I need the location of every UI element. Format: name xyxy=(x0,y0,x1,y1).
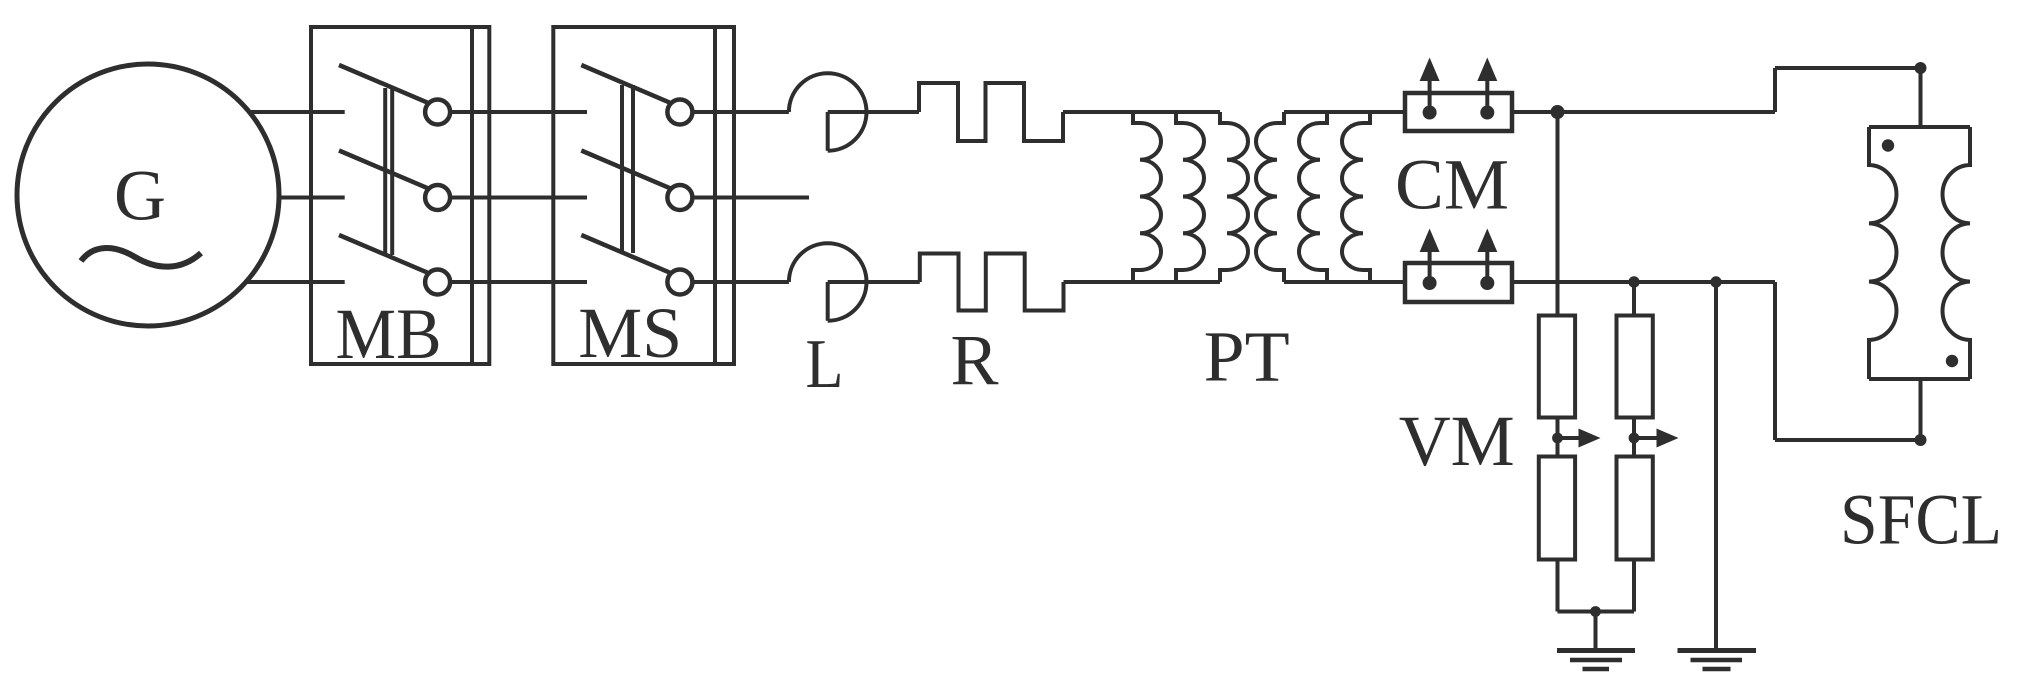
MB pole 1 blade xyxy=(339,65,429,103)
CM top arrow 1 xyxy=(1420,58,1440,113)
wire R to PT bottom xyxy=(1064,280,1221,284)
wire VM bottom bus xyxy=(1558,610,1635,614)
ground 1 xyxy=(1557,651,1635,670)
generator G circle xyxy=(17,64,279,326)
MB pole 2 contact xyxy=(425,185,450,210)
switch MS inner line xyxy=(713,27,717,364)
node junction ground2 xyxy=(1710,276,1721,287)
MB pole 3 contact xyxy=(425,270,450,295)
CM top dot 1 xyxy=(1423,106,1437,120)
MB pole 1 stub xyxy=(311,110,345,114)
CM bottom dot 1 xyxy=(1423,276,1437,290)
wire MS to L bottom xyxy=(692,280,789,284)
wire top corner riser xyxy=(1773,68,1777,112)
SFCL box top edge xyxy=(1869,125,1970,129)
MB pole 2 blade xyxy=(339,151,429,189)
generator sine wave xyxy=(81,248,201,267)
svg-text:MS: MS xyxy=(578,293,682,373)
breaker MB box xyxy=(311,27,489,364)
wire PT to CM bottom xyxy=(1284,280,1405,284)
VM tap arrow 2 xyxy=(1634,429,1679,448)
MS pole 1 blade xyxy=(581,65,671,103)
current monitor CM top box xyxy=(1405,93,1512,131)
wire SFCL bottom feed xyxy=(1919,379,1923,440)
inductor L bottom xyxy=(789,243,920,321)
svg-text:MB: MB xyxy=(336,294,442,374)
VM tap dot 1 xyxy=(1552,433,1563,444)
wire generator to MB top xyxy=(249,110,311,114)
switch MS box xyxy=(553,27,734,364)
wire MS to L top xyxy=(692,110,789,114)
MS pole 2 contact xyxy=(667,185,692,210)
VM resistor 1b xyxy=(1539,457,1575,560)
SFCL terminal dot top xyxy=(1882,139,1894,151)
MB pole 1 contact xyxy=(425,100,450,125)
wire SFCL top feed xyxy=(1919,68,1923,127)
ground 2 xyxy=(1678,651,1757,670)
SFCL right coil side xyxy=(1943,127,1970,379)
MS pole 3 contact xyxy=(667,270,692,295)
wire CM to corner top xyxy=(1512,110,1775,114)
wire VM chain1 bottom xyxy=(1556,560,1560,612)
MB linkage xyxy=(385,88,392,255)
MS pole 1 contact xyxy=(667,100,692,125)
MB pole 2 stub xyxy=(311,196,345,200)
node junction top xyxy=(1551,105,1565,119)
wire top to SFCL xyxy=(1775,66,1921,70)
wire PT to CM top xyxy=(1284,110,1405,114)
wire VM ground stem xyxy=(1594,612,1598,650)
current monitor CM bottom box xyxy=(1405,263,1512,302)
node junction VM2 xyxy=(1628,276,1639,287)
wire MB to MS bottom xyxy=(450,280,587,284)
VM tap dot 2 xyxy=(1629,433,1640,444)
SFCL box bottom edge xyxy=(1869,377,1970,381)
VM resistor 1a xyxy=(1539,316,1575,418)
wire VM chain1 drop xyxy=(1556,112,1560,316)
inductor L top xyxy=(789,73,919,151)
VM tap arrow 1 xyxy=(1558,429,1601,448)
node SFCL bottom xyxy=(1915,434,1927,446)
svg-text:VM: VM xyxy=(1399,401,1515,481)
wire bottom corner riser xyxy=(1773,282,1777,440)
wire VM chain2 mid xyxy=(1632,418,1636,457)
resistor R top xyxy=(919,83,1063,141)
SFCL left coil side xyxy=(1869,127,1896,379)
wire generator to MB bottom xyxy=(246,280,311,284)
transformer PT secondary winding xyxy=(1256,112,1370,282)
CM bottom dot 2 xyxy=(1480,276,1494,290)
wire R to PT top xyxy=(1063,110,1220,114)
wire VM chain2 drop xyxy=(1632,282,1636,316)
wire generator to MB middle xyxy=(279,196,311,200)
transformer PT primary winding xyxy=(1133,112,1248,282)
MS pole 2 blade xyxy=(581,151,671,189)
svg-text:G: G xyxy=(114,156,166,236)
node SFCL top xyxy=(1915,62,1927,74)
svg-text:CM: CM xyxy=(1395,145,1509,225)
resistor R bottom xyxy=(920,254,1064,311)
node VM ground junction xyxy=(1590,606,1601,617)
wire CM to corner bottom xyxy=(1512,280,1775,284)
breaker MB inner line xyxy=(470,27,474,364)
svg-text:SFCL: SFCL xyxy=(1840,479,2002,559)
VM resistor 2b xyxy=(1617,457,1653,560)
wire SFCL bottom return xyxy=(1775,438,1921,442)
VM resistor 2a xyxy=(1617,316,1653,418)
MS pole 3 blade xyxy=(581,235,671,273)
wire middle phase stub xyxy=(692,196,809,200)
wire VM chain2 bottom xyxy=(1632,560,1636,612)
wire ground 2 stem xyxy=(1714,282,1718,649)
svg-text:L: L xyxy=(806,326,844,403)
wire MB to MS middle xyxy=(450,196,587,200)
MS linkage xyxy=(622,85,633,253)
CM top dot 2 xyxy=(1480,106,1494,120)
CM bottom arrow 2 xyxy=(1477,229,1497,284)
MB pole 3 blade xyxy=(339,235,429,273)
wire VM chain1 mid xyxy=(1556,418,1560,457)
CM top arrow 2 xyxy=(1477,58,1497,113)
CM bottom arrow 1 xyxy=(1420,229,1440,284)
MB pole 3 stub xyxy=(311,280,345,284)
svg-text:PT: PT xyxy=(1204,317,1290,397)
svg-text:R: R xyxy=(951,320,999,400)
wire MB to MS top xyxy=(450,110,587,114)
SFCL terminal dot bottom xyxy=(1946,355,1958,367)
